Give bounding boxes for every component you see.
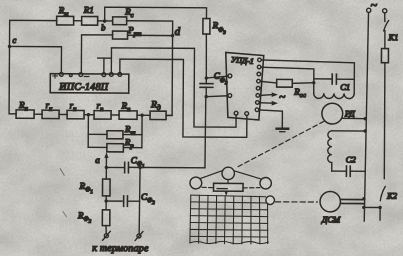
wire a down to Rf1 [105,167,107,179]
capacitor C2 [346,154,357,176]
dashed link RD to pulley [236,121,324,168]
DSM shaft bar [340,199,364,203]
dashed rail left [202,186,213,188]
box IPS-148P [50,74,129,93]
T symbol on terminal 4 [98,58,111,73]
wire to Rsh [88,133,107,135]
wire RD to supply line [343,117,366,119]
UPD right terminal 2 [257,65,261,69]
wire shunt right vertical [141,115,143,147]
wire from Rc right down to node d [127,21,173,36]
resistor Roc [277,79,306,99]
wire [111,114,119,116]
wire Rf3 down to Cf3 [205,34,207,78]
wire node d down to Rg right end [166,36,172,116]
ground [277,127,289,129]
node Cf2 left [104,199,107,202]
resistor Rg [150,100,166,119]
wire node c to IPS plus terminal [9,46,61,73]
svg-text:ДСМ: ДСМ [321,214,341,224]
resistor Rrt [113,25,142,39]
svg-text:С1: С1 [340,82,350,92]
wire [59,113,67,115]
carriage stub to pulley [227,180,229,184]
minus sign [84,75,88,77]
terminal 2 [70,74,73,77]
node after Rp [140,114,143,117]
node RD supply [364,117,367,120]
thermocouple terminal right [135,232,143,241]
terminal 5 [109,73,113,77]
wire [34,113,42,115]
capacitor Cf3 [200,70,228,96]
UPD right terminal 8 [255,108,259,112]
UPD right terminal 6 [256,94,260,98]
terminal 4 [102,73,106,77]
wire C2 loop top [332,130,365,132]
wire winding down to loop bottom [331,163,333,171]
fuse F1 [381,49,388,63]
wire [74,20,82,22]
resistor Rp [119,101,137,120]
resistor rn [67,100,84,119]
capacitor Cf2 [124,192,156,207]
svg-text:к термопаре: к термопаре [92,243,149,254]
wire node a2 down to Rf2 [105,201,107,210]
UPD right terminal 5 [256,86,260,90]
wire Rsh right [123,134,142,136]
terminal 3 [79,73,83,77]
terminal 6 [118,72,122,76]
supply terminal left [367,8,371,12]
svg-text:С2: С2 [346,154,357,164]
resistor rp [94,100,111,119]
node d [171,26,181,38]
UPD left terminal 2 [228,94,232,98]
UPD bottom terminal right [245,112,249,116]
wire fuse down to K2 [383,63,386,179]
stray scan mark 2 [63,212,67,217]
supply terminal right [383,9,387,13]
resistor Rm [57,5,74,25]
chart paper grid [190,195,269,244]
wire Rr right [123,147,141,149]
pulley left [190,177,202,189]
resistor Rn [16,100,34,119]
wire UPD to Roc [260,81,276,83]
resistor R1 [82,5,98,25]
wire Cf3 bottom to UPD input 2 [206,96,228,97]
wire down from Cf1 junction to right thermocouple terminal [138,167,141,234]
wire riser up to Cf3 bottom net [204,97,207,168]
svg-text:РД: РД [344,108,355,118]
dashed link roller to DSM [276,201,318,203]
motor DSM [320,191,341,224]
arrow output 1 [260,92,278,97]
wire with junction [137,114,150,116]
node C2 loop top [363,129,366,132]
svg-text:d: d [175,26,181,38]
chart roller [266,196,275,205]
resistor Rc [113,6,134,24]
pulley right [260,177,271,188]
wire C1 loop top left part [314,78,331,80]
supply left line [364,12,368,221]
svg-text:c: c [13,35,17,45]
wire Rf1 to node [105,196,107,201]
inductor DSM winding [328,131,332,163]
UPD right terminal 7 [256,101,260,105]
resistor Rsh [107,124,136,139]
wire K1 to fuse [384,31,386,49]
op-amp unit UPD-1 box [225,52,263,120]
svg-text:~: ~ [371,0,378,12]
wire with junction [84,114,94,116]
pen tip [224,191,227,196]
wire Roc to loop left [292,82,314,85]
wire UPD out1 to C1 loop right [261,60,354,93]
switch K2 blade [380,187,397,201]
wire Cf2 right to down wire [128,200,139,202]
wire Rg to d vertical [166,114,172,116]
svg-text:ИПС-148П: ИПС-148П [58,82,109,93]
node Cf1 right [138,166,141,169]
svg-text:УПД-1: УПД-1 [231,55,255,66]
resistor Rr [107,137,135,152]
wire UPD out8 to ground [259,110,283,127]
node Cf3 bottom [204,95,207,98]
wire terminal 5 to UPD lower-left terminal [111,48,236,127]
wire Rrt right to node d [128,34,173,36]
wire C1 loop top right part [337,78,354,80]
plus sign [53,74,58,78]
resistor Rf3 [203,19,227,36]
wire from node b up and over to Rf3 [105,7,207,22]
switch K1 blade [384,21,399,43]
motor RD [322,103,355,124]
capacitor Cf1 [125,155,145,173]
svg-text:a: a [95,155,100,165]
node supply at K2 wire [362,206,365,209]
wire to switch K1 [384,13,386,22]
wire terminal 6 to UPD lower-right terminal [119,59,247,137]
node Roc right [312,81,315,84]
node c [8,35,17,48]
terminal 1 [59,72,63,76]
svg-text:R1: R1 [83,5,94,15]
svg-text:Rд: Rд [150,100,161,112]
wiper arrow a into Rr [95,152,108,167]
cord left [200,170,222,178]
svg-text:К1: К1 [388,32,399,42]
thermocouple terminal left [103,231,111,240]
wire shunt left vertical [87,115,89,148]
node a junction [105,166,108,169]
wire Cf1 right with junction, to riser [129,166,204,168]
UPD left terminal 1 [228,74,232,78]
svg-text:К2: К2 [386,191,398,201]
wire Rf2 to terminal [105,226,107,234]
UPD right terminal 3 [257,72,261,76]
cord right [234,171,261,179]
wire C2 loop bottom left [332,170,345,172]
wire to Rr [88,146,107,148]
inductor RD winding [314,93,355,98]
node K2 contact [378,206,381,209]
svg-text:b: b [101,22,105,32]
svg-text:~: ~ [279,91,286,103]
wire K2 below [379,208,381,221]
UPD bottom terminal left [234,111,238,115]
node Cf3 top [205,76,208,79]
resistor Rf2 [77,210,110,226]
wire K2 to supply left line [364,206,380,208]
capacitor C1 [332,74,350,92]
node after rn [87,113,90,116]
wire left loop from top row down to bottom resistor row [9,20,57,114]
wire Cf3 top to UPD input 1 [206,76,228,78]
wire [98,20,113,22]
wire C2 loop bottom right [351,170,364,172]
stray scan mark 1 [60,169,64,176]
pen carriage [214,183,244,191]
UPD right terminal 4 [257,79,261,83]
wire UPD out2 to C1 loop left [261,67,314,93]
UPD right terminal 1 [258,58,262,62]
wire a to Cf1 [106,166,123,168]
wire to Cf2 [106,200,122,202]
pulley middle [222,167,234,179]
wire Rrt left to IPS minus terminal [81,35,112,74]
resistor Rf1 [79,179,111,196]
dashed rail right [243,187,260,189]
resistor rk [42,100,59,119]
node b [101,19,106,32]
arrow output 2 [259,101,278,106]
